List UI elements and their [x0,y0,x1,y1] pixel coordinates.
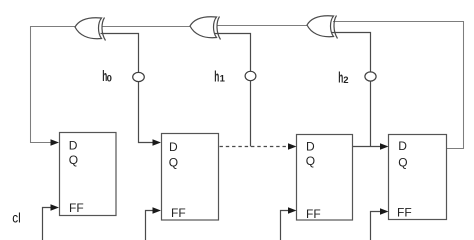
svg-text:D: D [69,139,78,153]
svg-text:1: 1 [220,74,226,85]
svg-text:0: 0 [107,74,112,85]
svg-text:Q: Q [69,153,78,167]
svg-text:FF: FF [397,206,412,220]
svg-text:h: h [214,68,219,85]
svg-text:D: D [169,140,178,154]
svg-text:Q: Q [306,154,315,168]
svg-text:cl: cl [12,210,20,226]
svg-text:2: 2 [343,75,348,86]
svg-text:D: D [306,140,315,154]
svg-text:FF: FF [69,201,84,215]
svg-text:D: D [398,139,407,153]
svg-text:Q: Q [169,155,178,169]
svg-text:FF: FF [306,207,321,221]
svg-text:Q: Q [398,156,407,170]
svg-text:FF: FF [171,206,186,220]
